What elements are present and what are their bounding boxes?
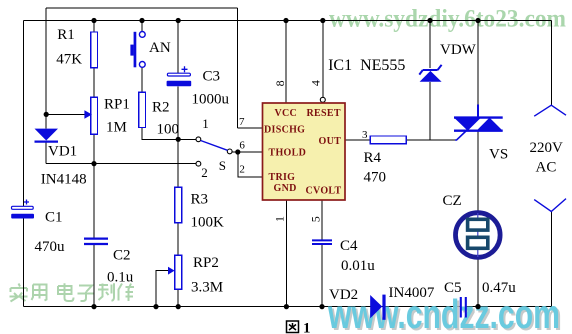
svg-text:6: 6 xyxy=(239,140,245,152)
wire R3 to RP2 xyxy=(177,223,179,255)
svg-text:1M: 1M xyxy=(106,120,127,136)
svg-text:2: 2 xyxy=(239,164,245,176)
svg-text:R2: R2 xyxy=(152,100,170,116)
capacitor C3 electrolytic xyxy=(167,66,192,86)
capacitor C2 xyxy=(84,239,108,244)
svg-text:1000u: 1000u xyxy=(192,92,230,108)
wire rail1 top (DISCHG net) xyxy=(46,7,238,9)
AC terminal fork upper xyxy=(534,105,566,116)
svg-text:VDW: VDW xyxy=(440,42,477,58)
wire CZ to rail (over watermark) xyxy=(477,258,479,307)
node dots on rail2 xyxy=(91,18,480,23)
wire C3 column top xyxy=(177,21,179,74)
svg-text:www.sydzdiy.6to23.com: www.sydzdiy.6to23.com xyxy=(329,6,566,33)
wire R4 to gate xyxy=(406,139,456,141)
svg-text:1: 1 xyxy=(202,116,209,131)
svg-text:IC1 NE555: IC1 NE555 xyxy=(328,57,405,74)
svg-text:100: 100 xyxy=(157,122,180,138)
wire to C2 xyxy=(93,164,95,238)
wire pin7 to IC xyxy=(238,127,263,129)
node junction VD1/wiper xyxy=(44,112,49,117)
svg-text:IN4148: IN4148 xyxy=(41,171,87,187)
svg-text:DISCHG: DISCHG xyxy=(264,124,305,135)
wire C4 to rail xyxy=(321,244,323,306)
wire RP1 bottom xyxy=(93,134,95,163)
wire OUT pin3 to R4 xyxy=(345,139,370,141)
svg-text:7: 7 xyxy=(239,116,245,128)
svg-text:VS: VS xyxy=(489,147,508,163)
wire VD1 cathode down xyxy=(45,142,47,164)
svg-text:GND: GND xyxy=(274,183,297,194)
svg-text:R4: R4 xyxy=(364,150,382,166)
svg-text:1: 1 xyxy=(272,216,286,222)
svg-text:100K: 100K xyxy=(191,215,225,231)
svg-text:4: 4 xyxy=(308,80,322,86)
wire net y163 (VD1/RP1/C2/R3-top to switch contact 2) xyxy=(46,163,196,165)
wire switch common to IC pin6 xyxy=(232,151,263,153)
socket CZ xyxy=(456,213,501,258)
switch S contact 1 xyxy=(196,137,201,142)
op-amp/timer IC U1 NE555 body xyxy=(263,103,346,200)
svg-text:C5: C5 xyxy=(444,280,462,296)
wire bottom rail right of C5 xyxy=(466,306,551,308)
wire pin4 RESET xyxy=(322,21,324,98)
node dots on bottom rail xyxy=(91,304,480,309)
svg-text:AC: AC xyxy=(536,159,557,175)
wire AN column top xyxy=(141,21,143,32)
switch S contact 2 xyxy=(196,161,201,166)
svg-text:RESET: RESET xyxy=(307,108,341,119)
RP2 wiper arrow xyxy=(168,267,175,275)
wire RP2 wiper L xyxy=(156,271,168,307)
svg-text:VD1: VD1 xyxy=(48,144,77,160)
wire pin2 branch xyxy=(238,152,263,177)
AC terminal fork lower xyxy=(534,199,566,212)
svg-text:2: 2 xyxy=(201,165,208,180)
potentiometer RP1 xyxy=(91,97,98,134)
wire triac to CZ xyxy=(477,131,479,212)
svg-text:AN: AN xyxy=(149,40,171,56)
wire rail2 VCC xyxy=(23,20,551,22)
svg-text:3.3M: 3.3M xyxy=(191,280,223,296)
triac VS xyxy=(454,105,503,141)
capacitor C5 xyxy=(461,297,466,318)
wire AN to R2 xyxy=(141,67,143,92)
resistor R4 xyxy=(370,136,406,144)
svg-text:0.1u: 0.1u xyxy=(107,270,134,286)
resistor R1 xyxy=(91,32,98,68)
svg-text:VCC: VCC xyxy=(275,108,298,119)
svg-text:www.cndzz.com: www.cndzz.com xyxy=(327,291,560,334)
watermark left 实用电子制作 (drawn strokes) xyxy=(10,283,135,301)
wire C1 bottom to rail xyxy=(22,219,24,307)
wire right AC column upper xyxy=(550,21,552,106)
svg-text:THOLD: THOLD xyxy=(269,148,307,159)
svg-text:3: 3 xyxy=(362,129,368,141)
svg-text:0.01u: 0.01u xyxy=(341,258,375,274)
wire VDW column top xyxy=(429,21,431,69)
wire pin7 drop xyxy=(237,8,239,128)
node junction pins 2-6 xyxy=(235,149,240,154)
wire CZ to rail xyxy=(477,258,479,307)
node junction C3 bottom xyxy=(176,137,181,142)
caption 图 1 (drawn glyph + numeral) xyxy=(287,321,299,333)
switch S common pole xyxy=(227,149,232,154)
svg-text:0.47u: 0.47u xyxy=(482,280,516,296)
svg-text:C4: C4 xyxy=(340,238,358,254)
svg-text:R1: R1 xyxy=(57,27,75,43)
wire C1 column xyxy=(22,21,24,208)
wire R1 column xyxy=(93,21,95,33)
svg-text:CZ: CZ xyxy=(443,193,462,209)
svg-text:RP1: RP1 xyxy=(104,96,130,112)
resistor R3 xyxy=(175,187,182,223)
wire C3 to R3 xyxy=(177,86,179,187)
svg-text:470: 470 xyxy=(364,170,387,186)
potentiometer RP2 xyxy=(175,255,182,289)
capacitor C4 xyxy=(312,240,332,244)
svg-text:220V: 220V xyxy=(530,140,564,156)
svg-text:VD2: VD2 xyxy=(329,287,358,303)
svg-text:C3: C3 xyxy=(203,69,221,85)
wire R1 to RP1 xyxy=(93,68,95,97)
svg-text:C1: C1 xyxy=(45,210,63,226)
svg-text:47K: 47K xyxy=(56,52,82,68)
pin4 reset bubble xyxy=(320,97,325,102)
wire VDW bottom to R4 net xyxy=(429,82,431,140)
svg-text:8: 8 xyxy=(273,80,287,86)
wire bottom rail left of C5 xyxy=(23,306,459,308)
svg-text:470u: 470u xyxy=(35,239,66,255)
svg-text:C2: C2 xyxy=(113,248,131,264)
svg-text:OUT: OUT xyxy=(319,136,342,147)
wire pin1 GND xyxy=(285,200,287,307)
svg-text:IN4007: IN4007 xyxy=(389,285,435,301)
svg-text:5: 5 xyxy=(309,216,323,222)
svg-text:RP2: RP2 xyxy=(193,255,219,271)
svg-text:1: 1 xyxy=(303,320,311,334)
svg-text:S: S xyxy=(219,158,226,173)
wire R2 bottom xyxy=(142,128,196,140)
wire RP2 to rail xyxy=(177,289,179,306)
node dot CZ rail (over watermark) xyxy=(475,304,480,309)
capacitor C1 electrolytic xyxy=(11,200,34,219)
switch S throw blade xyxy=(201,141,228,151)
svg-text:CVOLT: CVOLT xyxy=(306,185,342,196)
svg-text:R3: R3 xyxy=(191,192,209,208)
wire right AC column lower xyxy=(550,212,552,307)
wire pin8 VCC xyxy=(285,21,287,104)
wire VD1 column upper xyxy=(45,8,47,129)
diode VD2 xyxy=(370,295,385,320)
zener diode VDW xyxy=(419,65,441,82)
resistor R2 xyxy=(139,92,146,127)
diode VD1 xyxy=(35,129,59,142)
svg-text:TRIG: TRIG xyxy=(269,172,296,183)
wire triac column top xyxy=(477,21,479,107)
RP1 wiper arrow xyxy=(84,110,92,119)
wire C2 to rail xyxy=(93,244,95,307)
node junction RP1 bottom / C2 xyxy=(91,161,96,166)
wire RP1 wiper feed xyxy=(46,113,85,115)
wire pin5 CVOLT to C4 xyxy=(321,200,323,240)
pushbutton AN xyxy=(130,32,145,68)
